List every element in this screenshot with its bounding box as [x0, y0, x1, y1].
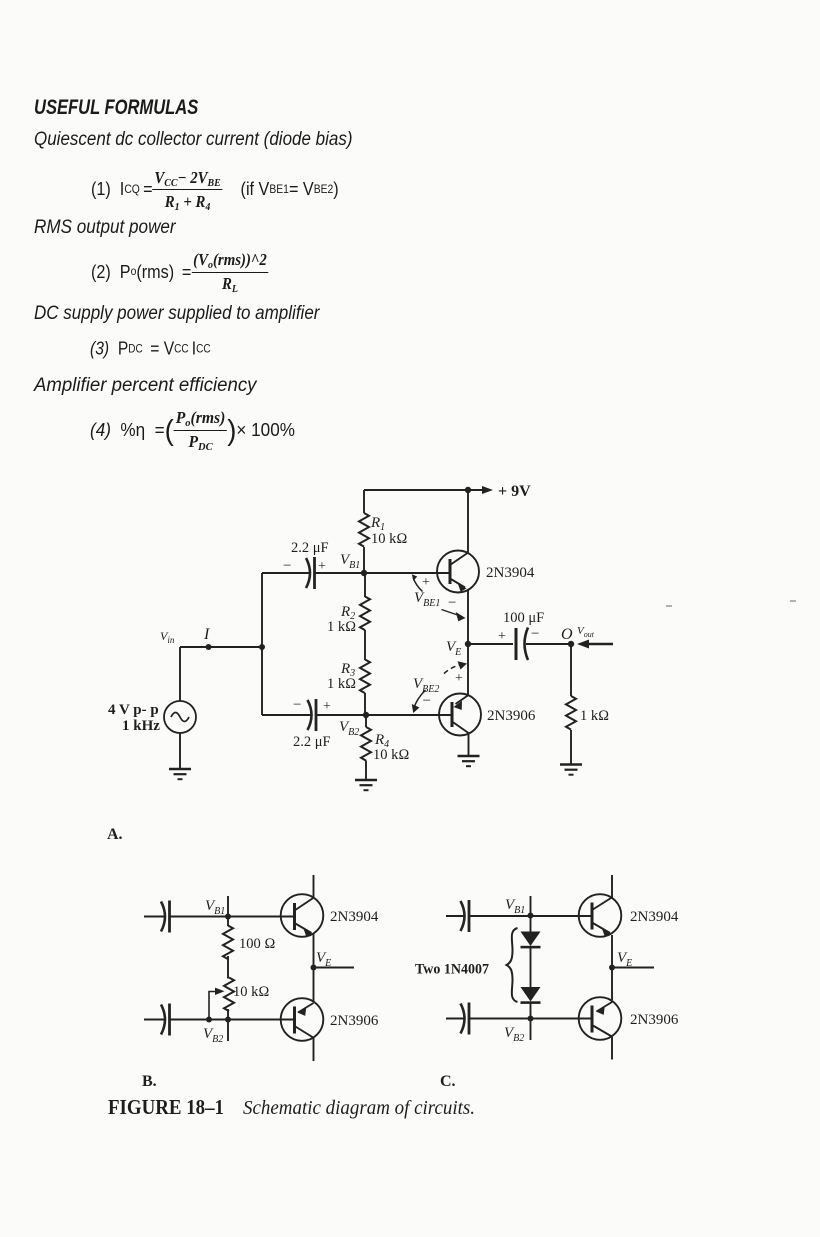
svg-text:+: +: [318, 559, 326, 574]
svg-text:B.: B.: [142, 1073, 157, 1090]
svg-text:10 kΩ: 10 kΩ: [373, 747, 410, 763]
svg-text:+: +: [323, 699, 331, 714]
svg-text:2.2 μF: 2.2 μF: [291, 540, 329, 556]
svg-text:Vout: Vout: [577, 625, 595, 639]
svg-text:1 kΩ: 1 kΩ: [327, 619, 356, 635]
svg-text:VB2: VB2: [504, 1025, 524, 1044]
svg-text:Two 1N4007: Two 1N4007: [415, 962, 489, 978]
svg-text:+: +: [498, 629, 506, 644]
svg-text:VE: VE: [617, 950, 632, 969]
svg-text:2N3904: 2N3904: [486, 565, 535, 581]
svg-text:2N3904: 2N3904: [630, 909, 679, 925]
svg-text:+ 9V: + 9V: [498, 483, 531, 500]
svg-text:10 kΩ: 10 kΩ: [233, 984, 270, 1000]
svg-text:I: I: [203, 626, 210, 643]
svg-text:10 kΩ: 10 kΩ: [371, 531, 408, 547]
svg-text:1 kΩ: 1 kΩ: [327, 676, 356, 692]
svg-text:A.: A.: [107, 826, 123, 843]
svg-text:−: −: [283, 558, 291, 574]
svg-text:4 V p- p: 4 V p- p: [108, 702, 159, 718]
svg-text:−: −: [448, 595, 456, 611]
svg-text:100 Ω: 100 Ω: [239, 936, 276, 952]
svg-text:−: −: [293, 697, 301, 713]
svg-text:VE: VE: [446, 639, 461, 658]
svg-text:+: +: [455, 671, 463, 686]
svg-text:2N3906: 2N3906: [330, 1013, 379, 1029]
svg-text:C.: C.: [440, 1073, 456, 1090]
svg-text:2N3906: 2N3906: [630, 1012, 679, 1028]
svg-text:VB2: VB2: [339, 719, 359, 738]
svg-text:1 kHz: 1 kHz: [122, 718, 160, 734]
svg-text:1 kΩ: 1 kΩ: [580, 708, 609, 724]
svg-text:+: +: [422, 575, 430, 590]
svg-text:2N3904: 2N3904: [330, 909, 379, 925]
svg-text:−: −: [423, 693, 431, 709]
svg-text:VB1: VB1: [340, 552, 360, 571]
svg-text:2N3906: 2N3906: [487, 708, 536, 724]
svg-text:VE: VE: [316, 950, 331, 969]
svg-text:Vin: Vin: [160, 629, 175, 645]
svg-text:Schematic diagram of circuits.: Schematic diagram of circuits.: [243, 1097, 475, 1119]
svg-text:VB1: VB1: [505, 897, 525, 916]
svg-text:2.2 μF: 2.2 μF: [293, 734, 331, 750]
svg-text:VB2: VB2: [203, 1026, 223, 1045]
svg-text:O: O: [561, 626, 573, 643]
svg-text:FIGURE 18–1: FIGURE 18–1: [108, 1095, 224, 1119]
svg-text:VB1: VB1: [205, 898, 225, 917]
svg-text:−: −: [531, 626, 539, 642]
svg-text:100 μF: 100 μF: [503, 610, 544, 626]
svg-text:VBE1: VBE1: [414, 590, 440, 609]
